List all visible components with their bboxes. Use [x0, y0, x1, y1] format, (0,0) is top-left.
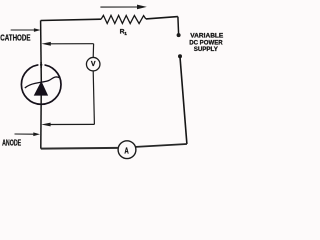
- gap in envelope at top wire crossing: [38, 62, 44, 68]
- svg-text:V: V: [91, 59, 96, 68]
- svg-text:ANODE: ANODE: [2, 138, 21, 148]
- diode anode triangle: [34, 82, 47, 95]
- wire top left segment: [41, 19, 101, 20]
- voltmeter upper branch arrow: [41, 42, 93, 46]
- power supply positive terminal dot: [177, 33, 181, 37]
- svg-text:A: A: [124, 145, 128, 155]
- voltmeter V: [86, 57, 100, 71]
- label VARIABLE DC POWER SUPPLY: [189, 33, 223, 54]
- label R1: [120, 29, 128, 38]
- wire top right segment: [146, 17, 178, 19]
- wire voltmeter upper lead: [92, 44, 94, 58]
- anode arrow: [15, 132, 41, 136]
- diode cathode curved bar: [25, 77, 59, 88]
- wire left upper (cathode lead): [40, 21, 43, 83]
- wire bottom right segment: [136, 144, 187, 147]
- wire bottom left segment: [41, 147, 118, 150]
- ammeter A: [118, 141, 136, 159]
- cathode arrow: [11, 28, 41, 32]
- svg-text:CATHODE: CATHODE: [0, 33, 30, 43]
- wire left lower (anode lead): [40, 95, 42, 149]
- power supply negative terminal dot: [178, 54, 182, 58]
- wire right upper to supply terminal: [177, 17, 180, 34]
- resistor R1: [101, 15, 146, 23]
- diode tube envelope: [21, 65, 61, 105]
- wire voltmeter lower lead: [93, 71, 94, 124]
- svg-text:1: 1: [124, 31, 127, 37]
- wire right lower: [180, 57, 187, 144]
- current arrow above resistor: [100, 5, 146, 10]
- svg-text:SUPPLY: SUPPLY: [194, 46, 219, 53]
- voltmeter lower branch arrow: [41, 123, 94, 127]
